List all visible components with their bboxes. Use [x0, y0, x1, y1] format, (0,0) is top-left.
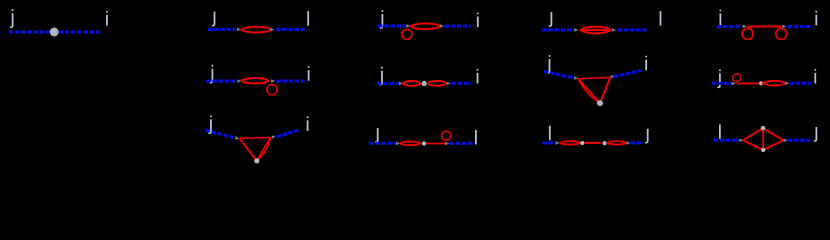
- wire: dashed interaction line (diagram 1): [9, 31, 100, 34]
- label j (diagram 8): [547, 55, 551, 74]
- arrow right (diagram 11): [445, 142, 449, 146]
- label l left (diagram 13): [719, 124, 721, 138]
- wire: right slanted dashed line (diagram 10): [277, 130, 299, 137]
- triangle right edge (diagram 8): [600, 77, 610, 103]
- bubble lens 1 (diagram 12): [560, 141, 580, 144]
- wire: right dashed line (diagram 13): [788, 139, 810, 142]
- arrow left (diagram 5): [743, 25, 747, 29]
- arrow left (diagram 3): [406, 24, 410, 28]
- label j (diagram 7): [379, 67, 383, 86]
- node between bubbles (diagram 7): [422, 81, 427, 86]
- arrow right (diagram 4): [612, 28, 616, 32]
- wire: left slanted dashed line (diagram 8): [544, 71, 575, 78]
- wire: left dashed line (diagram 13): [714, 139, 740, 142]
- arrow left (diagram 7): [399, 82, 403, 86]
- arrow left (diagram 9): [732, 82, 736, 86]
- tadpole loop left (diagram 5): [742, 28, 753, 39]
- node bottom (diagram 13): [761, 148, 765, 152]
- triangle top edge (diagram 8): [578, 77, 610, 79]
- arrow left (diagram 2): [237, 28, 241, 32]
- diamond edge top-left (diagram 13): [743, 128, 763, 140]
- label j (diagram 5): [718, 10, 722, 29]
- tadpole loop right (diagram 5): [776, 28, 787, 39]
- bubble lens (diagram 6): [242, 78, 269, 83]
- wire: right dashed line (diagram 11): [450, 142, 475, 145]
- sunset middle propagator (diagram 4): [580, 29, 612, 31]
- tadpole loop below left vertex (diagram 3): [402, 29, 412, 39]
- wire: left dashed line (diagram 3): [378, 25, 406, 28]
- propagator line (diagram 5): [748, 25, 782, 27]
- wire: left dashed line (diagram 7): [377, 82, 399, 85]
- node right (diagram 12): [603, 141, 607, 145]
- arrow right (diagram 13): [784, 139, 788, 143]
- triangle top edge (diagram 10): [240, 137, 271, 138]
- label i (diagram 6): [308, 66, 310, 80]
- node: bottom vertex dot (diagram 10): [254, 158, 259, 163]
- tadpole loop above right vertex (diagram 11): [442, 131, 451, 140]
- wire: left dashed line (diagram 4): [542, 28, 573, 31]
- arrow right (diagram 10): [271, 134, 276, 139]
- wire: right dashed line (diagram 7): [452, 82, 472, 85]
- propagator line (diagram 11): [426, 143, 445, 145]
- label j (diagram 1): [10, 9, 14, 28]
- label l left (diagram 12): [549, 126, 551, 140]
- arrow left (diagram 11): [396, 142, 400, 146]
- diamond vertical line (diagram 13): [762, 128, 764, 150]
- propagator line (diagram 12): [584, 142, 601, 144]
- label i (diagram 10): [307, 116, 309, 130]
- arrow right (diagram 9): [785, 81, 789, 85]
- bubble lens (diagram 9): [763, 81, 785, 86]
- arrow right (diagram 6): [271, 79, 275, 83]
- arrow right (diagram 2): [270, 28, 274, 32]
- arrow left (diagram 10): [235, 136, 240, 141]
- tadpole loop below right vertex (diagram 6): [267, 84, 277, 94]
- label dotless-j right (diagram 12): [645, 129, 649, 144]
- label l right (diagram 2): [307, 11, 309, 25]
- wire: right dashed line (diagram 9): [790, 82, 812, 85]
- bubble lens (diagram 2): [242, 27, 272, 33]
- wire: left dashed line (diagram 9): [712, 82, 732, 85]
- wire: left dashed line (diagram 2): [208, 28, 236, 31]
- diamond edge bottom-right (diagram 13): [763, 140, 783, 150]
- label j (diagram 3): [380, 10, 384, 29]
- bubble lens 2 (diagram 12): [608, 141, 627, 144]
- sunset outer lens (diagram 4): [581, 27, 610, 34]
- label j (diagram 9): [717, 70, 721, 89]
- bubble lens 2 (diagram 7): [428, 81, 446, 86]
- bubble lens 1 (diagram 7): [403, 81, 421, 86]
- node left (diagram 12): [580, 141, 584, 145]
- bubble lens (diagram 11): [400, 142, 420, 146]
- label i (diagram 5): [815, 11, 817, 25]
- arrow left (diagram 6): [237, 79, 241, 83]
- label i (diagram 3): [477, 13, 479, 27]
- label i (diagram 8): [645, 56, 647, 70]
- label dotless-j left (diagram 2): [212, 12, 216, 27]
- wire: right dashed line (diagram 6): [276, 80, 304, 83]
- triangle doubled left edge (diagram 8): [578, 79, 600, 103]
- wire: right dashed line (diagram 5): [787, 25, 811, 28]
- arrow left (diagram 8): [574, 76, 579, 80]
- wire: right dashed line (diagram 12): [630, 141, 643, 144]
- arrow left (diagram 12): [556, 141, 560, 145]
- wire: left dashed line (diagram 12): [542, 141, 555, 144]
- arrow right (diagram 7): [447, 82, 451, 86]
- diamond edge top-right (diagram 13): [763, 128, 783, 140]
- wire: right slanted dashed line (diagram 8): [614, 71, 641, 77]
- label dotless-j left (diagram 4): [549, 12, 553, 27]
- node top (diagram 13): [761, 126, 765, 130]
- arrow right (diagram 5): [782, 25, 786, 29]
- label dotless-j left (diagram 11): [375, 128, 379, 143]
- node: on-site vertex circle (diagram 1): [50, 28, 59, 37]
- label i (diagram 9): [814, 69, 816, 83]
- label i (diagram 1): [106, 11, 108, 25]
- propagator line (diagram 9): [737, 82, 761, 84]
- tadpole loop above left vertex (diagram 9): [733, 74, 741, 82]
- wire: right dashed line (diagram 2): [276, 28, 305, 31]
- wire: left dashed line (diagram 5): [717, 25, 741, 28]
- node: bottom vertex dot (diagram 8): [597, 100, 603, 106]
- arrow left (diagram 4): [574, 28, 578, 32]
- wire: left slanted dashed line (diagram 10): [206, 130, 235, 138]
- label dotless-j right (diagram 13): [814, 127, 818, 142]
- triangle doubled right edge (diagram 10): [257, 137, 271, 160]
- diamond edge bottom-left (diagram 13): [743, 140, 763, 150]
- label l right (diagram 4): [660, 11, 662, 25]
- arrow right (diagram 8): [610, 74, 615, 78]
- node mid (diagram 9): [759, 81, 763, 85]
- label i (diagram 7): [477, 69, 479, 83]
- triangle left edge (diagram 10): [240, 138, 257, 160]
- wire: left dashed line (diagram 6): [206, 80, 237, 83]
- label j (diagram 10): [208, 115, 212, 134]
- arrow right (diagram 3): [440, 24, 444, 28]
- label j (diagram 6): [210, 65, 214, 84]
- node mid (diagram 11): [422, 141, 426, 145]
- wire: left dashed line (diagram 11): [369, 142, 395, 145]
- wire: right dashed line (diagram 4): [618, 28, 647, 31]
- bubble lens (diagram 3): [411, 24, 440, 30]
- wire: right dashed line (diagram 3): [445, 25, 472, 28]
- arrow left (diagram 13): [739, 139, 743, 143]
- label l right (diagram 11): [475, 130, 477, 144]
- arrow right (diagram 12): [626, 141, 630, 145]
